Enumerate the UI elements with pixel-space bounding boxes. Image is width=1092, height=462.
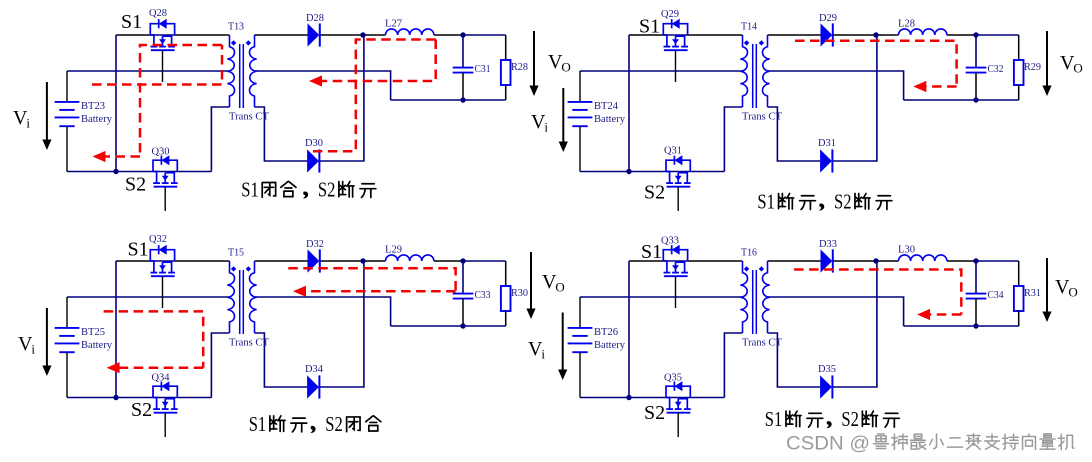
- wire output node to resistor top: [976, 34, 1019, 36]
- svg-text:S2: S2: [841, 407, 859, 431]
- label watermark glyph xiang: [1023, 434, 1036, 450]
- battery BT25: [55, 297, 80, 398]
- capacitor C34: [966, 261, 987, 326]
- svg-text:Q35: Q35: [664, 373, 682, 384]
- node rectifier output junction: [360, 32, 365, 37]
- svg-text:Q31: Q31: [664, 146, 682, 157]
- svg-text:T13: T13: [228, 22, 244, 33]
- svg-text:Trans CT: Trans CT: [229, 338, 270, 349]
- svg-text:O: O: [555, 280, 564, 295]
- label watermark glyph cheng: [966, 434, 981, 450]
- svg-text:S2: S2: [131, 399, 152, 421]
- wire rail through switch S1: [663, 34, 687, 36]
- node output top junction: [973, 32, 978, 37]
- svg-text:Q34: Q34: [152, 373, 171, 384]
- wire diode to node: [320, 260, 363, 262]
- wire red secondary top run: [794, 270, 961, 315]
- wire node to inductor: [876, 34, 899, 36]
- wire top rail switch to transformer: [688, 260, 743, 262]
- svg-text:BT24: BT24: [594, 101, 619, 112]
- transistor Q29: [663, 19, 688, 51]
- wire red secondary arrow run: [306, 290, 456, 293]
- svg-text:R31: R31: [1024, 288, 1041, 299]
- svg-text:S2: S2: [325, 412, 343, 436]
- arrow Vi input voltage: [558, 313, 567, 381]
- wire lower diode to node riser: [319, 261, 364, 387]
- wire red primary loop through S1: [140, 45, 222, 157]
- wire diode to node: [833, 260, 876, 262]
- svg-text:Battery: Battery: [594, 340, 626, 351]
- svg-text:Q32: Q32: [149, 234, 167, 245]
- transistor Q31: [666, 155, 691, 187]
- wire red secondary down leg: [322, 40, 436, 82]
- node battery return junction: [113, 395, 118, 400]
- wire output node to resistor top: [463, 34, 506, 36]
- wire output bottom rail: [904, 325, 1019, 327]
- svg-text:BT25: BT25: [81, 327, 105, 338]
- wire secondary return (center tap): [255, 297, 391, 326]
- wire red secondary arrowhead: [917, 309, 930, 320]
- wire secondary top lead to diode: [768, 260, 821, 262]
- wire secondary top lead to diode: [768, 34, 821, 36]
- svg-text:Battery: Battery: [81, 114, 113, 125]
- inductor L27: [386, 29, 434, 35]
- svg-text:D29: D29: [819, 13, 837, 24]
- diode D31: [820, 149, 832, 172]
- wire red primary loop battery to center tap: [92, 45, 222, 85]
- node battery return junction: [113, 169, 118, 174]
- transistor Q30: [153, 155, 178, 187]
- wire gate stub: [164, 187, 166, 211]
- label watermark glyph ji: [1058, 434, 1074, 449]
- wire bottom rail: [580, 397, 724, 399]
- node output bottom junction: [973, 323, 978, 328]
- svg-text:T15: T15: [228, 248, 244, 259]
- wire red secondary top run: [795, 41, 957, 87]
- wire secondary top lead to diode: [255, 260, 308, 262]
- arrow Vi input voltage: [559, 88, 568, 152]
- svg-text:D34: D34: [305, 364, 324, 375]
- transistor Q33: [663, 245, 688, 277]
- diode D33: [821, 249, 833, 272]
- wire primary bottom lead: [211, 333, 229, 398]
- wire inductor to output node: [434, 34, 463, 36]
- svg-text:S1: S1: [249, 412, 267, 436]
- svg-text:S1: S1: [241, 178, 258, 202]
- transistor Q35: [666, 381, 691, 413]
- label watermark glyph er: [948, 438, 963, 447]
- wire secondary bottom lead: [768, 107, 821, 161]
- wire gate stub: [162, 50, 164, 82]
- wire top rail switch to transformer: [175, 34, 230, 36]
- wire output node to resistor top: [976, 260, 1019, 262]
- node output bottom junction: [460, 97, 465, 102]
- svg-text:i: i: [26, 116, 30, 131]
- transformer T14: [740, 35, 769, 108]
- transformer T15: [227, 261, 256, 334]
- wire left riser (S1 return): [628, 261, 630, 398]
- svg-text:D35: D35: [818, 364, 836, 375]
- svg-text:Trans CT: Trans CT: [229, 112, 270, 123]
- wire diode to node: [833, 34, 876, 36]
- svg-text:Battery: Battery: [81, 340, 113, 351]
- wire inductor to output node: [434, 260, 463, 262]
- svg-text:Trans CT: Trans CT: [742, 112, 783, 123]
- svg-text:Q28: Q28: [149, 8, 167, 19]
- svg-text:R29: R29: [1024, 62, 1041, 73]
- arrow Vi input voltage: [42, 82, 51, 150]
- svg-text:R30: R30: [511, 288, 528, 299]
- label caption: [249, 412, 381, 436]
- wire secondary bottom lead: [768, 333, 821, 387]
- wire red secondary arrowhead: [913, 81, 926, 92]
- wire red primary arrowhead: [93, 151, 106, 162]
- wire output bottom rail: [391, 99, 506, 101]
- svg-text:S2: S2: [644, 182, 665, 204]
- transistor Q34: [153, 381, 178, 413]
- svg-text:CSDN @: CSDN @: [786, 433, 870, 455]
- wire secondary top lead to diode: [255, 34, 308, 36]
- svg-text:S2: S2: [644, 402, 665, 424]
- svg-text:S1: S1: [765, 407, 783, 431]
- battery BT24: [568, 71, 593, 172]
- inductor L28: [899, 29, 947, 35]
- wire red primary return arrow: [119, 366, 203, 369]
- wire gate stub: [675, 276, 677, 308]
- svg-text:Trans CT: Trans CT: [742, 338, 783, 349]
- wire node to inductor: [876, 260, 899, 262]
- label watermark glyph zhi: [985, 434, 1000, 449]
- svg-text:C34: C34: [988, 290, 1005, 301]
- arrow Vo output voltage: [1042, 258, 1051, 322]
- wire gate stub: [164, 413, 166, 437]
- capacitor C31: [453, 35, 474, 100]
- wire center-tap to battery: [580, 296, 742, 298]
- svg-text:S1: S1: [641, 241, 662, 263]
- resistor R28: [501, 35, 511, 100]
- svg-text:R28: R28: [511, 62, 528, 73]
- diode D35: [820, 375, 832, 398]
- diode D29: [821, 23, 833, 46]
- battery BT23: [55, 71, 80, 172]
- wire gate stub: [677, 187, 679, 211]
- wire center-tap to battery: [67, 296, 229, 298]
- label watermark glyph zui: [911, 434, 926, 449]
- svg-text:T16: T16: [741, 248, 757, 259]
- wire top rail left segment: [629, 260, 663, 262]
- label caption: [241, 178, 376, 202]
- wire top rail left segment: [629, 34, 663, 36]
- resistor R29: [1014, 35, 1024, 100]
- wire inductor to output node: [947, 34, 976, 36]
- wire secondary bottom lead: [255, 107, 308, 161]
- wire center-tap to battery: [67, 70, 229, 72]
- svg-text:C31: C31: [475, 64, 491, 75]
- wire center-tap to battery: [580, 70, 742, 72]
- arrow Vi input voltage: [42, 308, 51, 376]
- svg-text:S2: S2: [125, 174, 146, 196]
- wire top rail switch to transformer: [688, 34, 743, 36]
- svg-text:L30: L30: [898, 245, 915, 256]
- svg-text:O: O: [1073, 61, 1082, 76]
- svg-text:S2: S2: [834, 190, 852, 214]
- wire diode to node: [320, 34, 363, 36]
- svg-text:i: i: [541, 347, 545, 362]
- inductor L29: [386, 255, 434, 261]
- node battery return junction: [626, 169, 631, 174]
- wire gate stub: [162, 276, 164, 308]
- wire primary bottom lead: [724, 107, 742, 172]
- node output bottom junction: [973, 97, 978, 102]
- transformer T13: [227, 35, 256, 108]
- transformer T16: [740, 261, 769, 334]
- svg-text:S1: S1: [121, 11, 142, 33]
- wire secondary return (center tap): [255, 71, 391, 100]
- wire rail through switch S1: [150, 34, 174, 36]
- wire rail through switch S1: [150, 260, 174, 262]
- label caption: [765, 407, 900, 431]
- svg-text:D33: D33: [819, 239, 837, 250]
- arrow Vo output voltage: [526, 252, 535, 319]
- capacitor C32: [966, 35, 987, 100]
- wire left riser (S1 return): [115, 35, 117, 172]
- svg-text:D32: D32: [306, 239, 324, 250]
- svg-text:L29: L29: [385, 245, 402, 256]
- wire node to inductor: [363, 260, 386, 262]
- svg-text:L28: L28: [898, 19, 915, 30]
- diode D30: [307, 149, 319, 172]
- svg-text:S2: S2: [318, 178, 336, 202]
- wire secondary return (center tap): [768, 71, 904, 100]
- wire red secondary arrow run: [926, 85, 957, 88]
- wire lower diode to node riser: [319, 35, 364, 161]
- transistor Q28: [150, 19, 175, 51]
- inductor L30: [899, 255, 947, 261]
- wire gate stub: [675, 50, 677, 82]
- svg-text:Q29: Q29: [661, 9, 679, 20]
- svg-text:O: O: [1068, 285, 1077, 300]
- svg-text:Q30: Q30: [152, 147, 170, 158]
- node output top junction: [973, 258, 978, 263]
- label watermark glyph xiao: [930, 434, 944, 448]
- wire red secondary arrowhead: [293, 286, 306, 297]
- wire primary bottom lead: [724, 333, 742, 398]
- diode D28: [308, 23, 320, 46]
- resistor R31: [1014, 261, 1024, 326]
- svg-text:T14: T14: [741, 22, 758, 33]
- svg-text:Q33: Q33: [661, 236, 679, 247]
- label caption: [757, 190, 892, 214]
- transistor Q32: [150, 245, 175, 277]
- wire secondary bottom lead: [255, 333, 308, 387]
- wire red secondary top run: [288, 268, 455, 291]
- label watermark glyph chi: [1003, 434, 1019, 449]
- svg-text:i: i: [544, 120, 548, 135]
- arrow Vo output voltage: [1042, 31, 1051, 96]
- label watermark glyph lu: [874, 434, 889, 448]
- wire secondary return (center tap): [768, 297, 904, 326]
- svg-text:O: O: [561, 60, 570, 75]
- wire red primary loop center tap run: [104, 311, 204, 367]
- wire red secondary arrowhead: [309, 75, 322, 86]
- wire output node to resistor top: [463, 260, 506, 262]
- svg-text:Battery: Battery: [594, 114, 626, 125]
- svg-text:i: i: [31, 342, 35, 357]
- arrow Vo output voltage: [529, 31, 538, 96]
- wire top rail left segment: [116, 34, 150, 36]
- node output top junction: [460, 258, 465, 263]
- wire node to inductor: [363, 34, 386, 36]
- wire primary bottom lead: [211, 107, 229, 172]
- wire bottom rail: [67, 171, 211, 173]
- svg-text:BT23: BT23: [81, 101, 105, 112]
- wire bottom rail: [580, 171, 724, 173]
- wire red secondary arrow run: [930, 313, 961, 316]
- wire left riser (S1 return): [628, 35, 630, 172]
- node rectifier output junction: [873, 258, 878, 263]
- diode D34: [307, 375, 319, 398]
- wire red secondary top run: [309, 40, 436, 152]
- node rectifier output junction: [873, 32, 878, 37]
- wire left riser (S1 return): [115, 261, 117, 398]
- svg-text:L27: L27: [385, 19, 402, 30]
- node rectifier output junction: [360, 258, 365, 263]
- label watermark glyph liang: [1040, 434, 1055, 449]
- node battery return junction: [626, 395, 631, 400]
- svg-text:S1: S1: [128, 239, 149, 261]
- svg-text:D30: D30: [305, 138, 323, 149]
- node output top junction: [460, 32, 465, 37]
- svg-text:S1: S1: [757, 190, 775, 214]
- wire top rail switch to transformer: [175, 260, 230, 262]
- svg-text:BT26: BT26: [594, 327, 618, 338]
- battery BT26: [568, 297, 593, 398]
- label watermark glyph bang: [892, 434, 908, 449]
- wire top rail left segment: [116, 260, 150, 262]
- node output bottom junction: [460, 323, 465, 328]
- wire lower diode to node riser: [832, 35, 877, 161]
- wire lower diode to node riser: [832, 261, 877, 387]
- wire rail through switch S1: [663, 260, 687, 262]
- wire gate stub: [677, 413, 679, 437]
- svg-text:D28: D28: [306, 13, 324, 24]
- svg-text:D31: D31: [818, 138, 836, 149]
- svg-text:C32: C32: [988, 64, 1004, 75]
- capacitor C33: [453, 261, 474, 326]
- wire red primary arrowhead: [107, 362, 120, 373]
- wire output bottom rail: [391, 325, 506, 327]
- svg-text:S1: S1: [639, 16, 660, 38]
- wire inductor to output node: [947, 260, 976, 262]
- wire bottom rail: [67, 397, 211, 399]
- svg-text:C33: C33: [475, 290, 491, 301]
- diode D32: [308, 249, 320, 272]
- wire red primary return arrow: [104, 155, 140, 158]
- resistor R30: [501, 261, 511, 326]
- wire output bottom rail: [904, 99, 1019, 101]
